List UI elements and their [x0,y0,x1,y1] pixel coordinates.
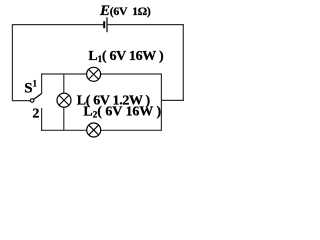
contact 1 wire [41,74,43,94]
svg-text:2: 2 [32,106,39,121]
lamp L2 [87,123,101,137]
battery E negative plate (short) [103,21,105,28]
wire right edge [182,24,184,101]
svg-text:S1: S1 [24,78,37,96]
lamp L1 [87,67,101,81]
switch S lever [34,93,42,99]
contact 2 wire [41,108,43,131]
wire branch top [41,73,161,75]
wire top-left segment [12,24,103,26]
wire branch bottom [41,129,161,131]
switch S pivot [30,99,34,103]
battery E positive plate (long) [106,17,108,32]
wire right junction horizontal [161,99,183,101]
wire top-right segment [107,24,183,26]
svg-text:E(6V 1Ω): E(6V 1Ω) [99,3,151,19]
wire left edge [11,24,13,101]
lamp L [57,93,71,107]
wire middle branch vertical [63,74,65,131]
wire right step vertical [160,74,162,131]
wire switch common [12,100,30,102]
svg-text:L1( 6V 16W ): L1( 6V 16W ) [88,49,164,65]
